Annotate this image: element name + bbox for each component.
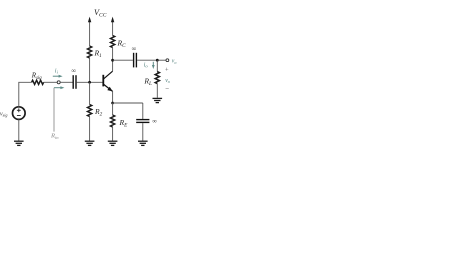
node: output terminal (open circle) <box>166 59 169 62</box>
svg-text:ii: ii <box>55 68 59 75</box>
svg-text:RE: RE <box>119 118 129 129</box>
wire: RL node to output terminal <box>159 59 166 61</box>
wire: source top up and to Rsig <box>19 82 32 107</box>
node: base junction dot <box>88 81 91 84</box>
wire: RL bottom lead <box>156 84 158 98</box>
wire: RC bottom to collector node <box>112 48 114 61</box>
svg-text:+: + <box>165 67 169 74</box>
node: input terminal (open circle) <box>57 81 60 84</box>
svg-text:VCC: VCC <box>94 8 107 18</box>
svg-text:io: io <box>144 62 149 69</box>
wire: collector vertical <box>112 60 114 71</box>
wire: output cap to RL node <box>137 59 156 61</box>
wire: emitter vertical <box>112 91 114 103</box>
current arrow io <box>152 62 155 69</box>
ground (RE) <box>108 141 118 145</box>
wire: cap CC1 to base <box>77 81 103 83</box>
svg-text:∞: ∞ <box>132 46 137 53</box>
voltage source vsig <box>12 107 25 120</box>
resistor Rsig (horizontal) <box>32 80 44 84</box>
svg-text:∞: ∞ <box>71 68 76 75</box>
svg-text:Rin: Rin <box>50 133 59 140</box>
node: collector junction dot <box>111 59 114 62</box>
current arrow ii <box>53 75 63 78</box>
svg-text:vsig: vsig <box>0 112 7 118</box>
resistor RC <box>111 36 115 48</box>
resistor RL <box>155 72 159 84</box>
svg-text:R1: R1 <box>94 49 103 60</box>
svg-text:R2: R2 <box>94 107 103 118</box>
wire: Rsig to input node <box>44 81 58 83</box>
svg-text:RL: RL <box>143 76 152 87</box>
capacitor CE (bypass) <box>136 120 149 123</box>
wire: bypass cap bottom lead <box>142 123 144 141</box>
wire: emitter to RE <box>112 103 114 115</box>
wire: R2 top <box>89 82 91 104</box>
ground (R2) <box>85 141 95 145</box>
svg-text:−: − <box>165 85 169 93</box>
wire: source bottom to ground <box>18 119 20 141</box>
resistor RE <box>111 115 115 127</box>
node: emitter junction dot <box>111 102 114 105</box>
capacitor CC1 <box>73 75 76 89</box>
transistor Q1 emitter arrowhead <box>107 87 112 92</box>
wire: Vcc supply line left (R1 branch top) <box>89 22 91 47</box>
svg-text:vo: vo <box>165 78 170 84</box>
wire: emitter node to bypass cap <box>113 102 143 104</box>
VCC supply arrow right <box>111 17 114 23</box>
ground (RL) <box>153 98 163 102</box>
wire: R2 bottom lead <box>89 117 91 142</box>
resistor R2 <box>88 105 92 117</box>
svg-text:∞: ∞ <box>152 118 157 125</box>
wire: Rin leader line <box>53 88 55 132</box>
wire: Vcc supply line right (RC branch top) <box>112 22 114 36</box>
node: RL junction dot <box>156 59 159 62</box>
resistor R1 <box>88 46 92 58</box>
ground (bypass cap) <box>138 141 148 145</box>
wire: RE bottom lead <box>112 127 114 141</box>
ground (source) <box>14 141 24 145</box>
capacitor CC2 <box>134 53 137 68</box>
svg-text:vo: vo <box>172 59 177 65</box>
wire: RL top lead <box>156 60 158 71</box>
wire: R1 bottom to base node <box>89 58 91 82</box>
wire: bypass cap top lead <box>142 103 144 119</box>
svg-text:RC: RC <box>117 39 127 50</box>
VCC supply arrow left <box>88 17 91 23</box>
wire: collector to output cap <box>113 59 133 61</box>
Rin port arrow <box>54 86 64 89</box>
transistor Q1 <box>103 71 112 91</box>
wire: input node to coupling cap CC1 <box>60 81 72 83</box>
